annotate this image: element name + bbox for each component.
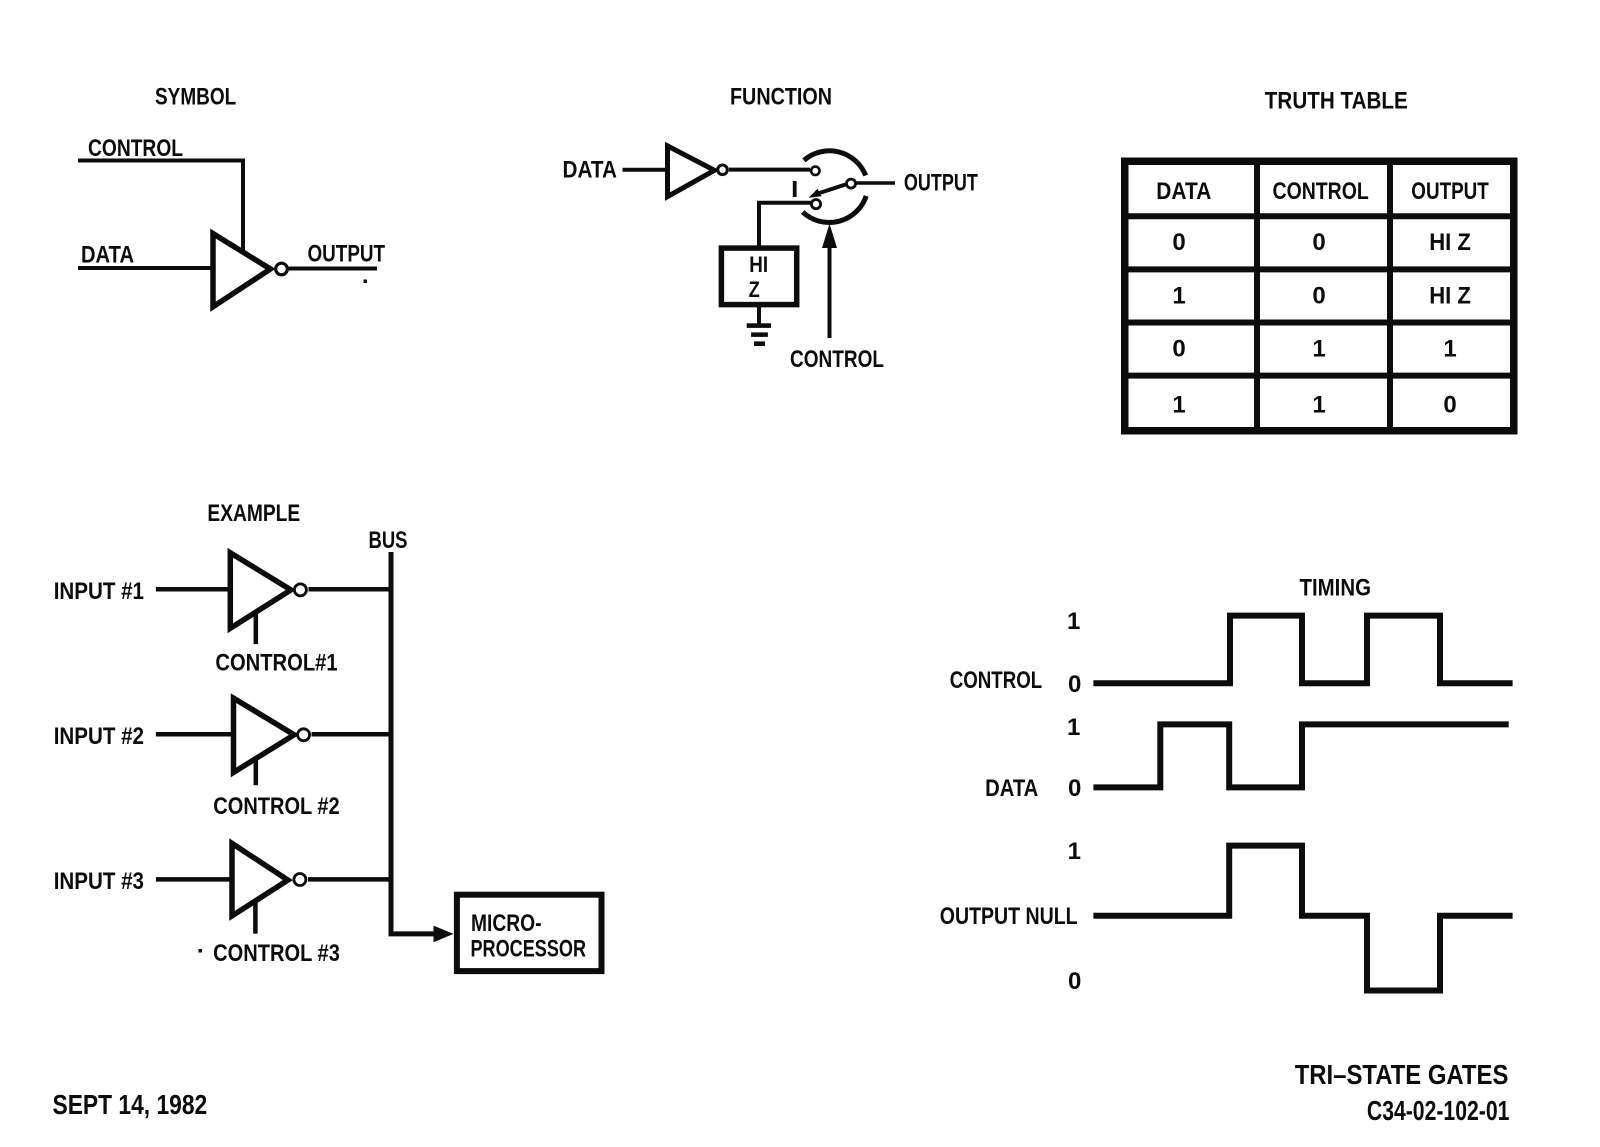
node INPUT #3 label — [54, 868, 144, 895]
switch S1 body arc top — [804, 151, 866, 176]
svg-text:1: 1 — [1172, 392, 1185, 419]
truth table header DATA — [1156, 178, 1211, 205]
svg-text:0: 0 — [1443, 392, 1456, 419]
footer date SEPT 14, 1982 — [53, 1089, 208, 1120]
DATA timing level 0 label — [1068, 775, 1081, 802]
OUTPUT NULL waveform — [1093, 846, 1512, 991]
truth table header CONTROL — [1273, 178, 1369, 205]
svg-text:SYMBOL: SYMBOL — [155, 84, 236, 111]
svg-text:CONTROL#1: CONTROL#1 — [215, 650, 337, 677]
node CONTROL #3 label — [213, 940, 340, 967]
wire buffer U5 to bus — [308, 877, 391, 882]
node OUTPUT label (function) — [904, 170, 978, 197]
CONTROL timing level 1 label — [1067, 608, 1080, 635]
svg-text:1: 1 — [1068, 838, 1081, 865]
wire HI Z box to ground — [757, 305, 761, 324]
svg-text:1: 1 — [1312, 392, 1325, 419]
svg-text:BUS: BUS — [369, 527, 408, 554]
svg-text:TIMING: TIMING — [1300, 575, 1372, 602]
buffer U5 inversion bubble — [294, 874, 306, 886]
node DATA label — [81, 242, 134, 269]
wire INPUT #2 — [156, 732, 235, 737]
svg-text:HI Z: HI Z — [1429, 229, 1471, 256]
node CONTROL#1 label — [215, 650, 337, 677]
wire buffer to switch contact — [729, 168, 810, 172]
svg-text:DATA: DATA — [81, 242, 134, 269]
title FUNCTION — [730, 84, 832, 111]
wire INPUT #1 — [156, 587, 232, 592]
wire DATA input — [78, 266, 215, 270]
truth table row 2 values — [1172, 283, 1471, 310]
wire INPUT #3 — [156, 877, 234, 882]
svg-text:CONTROL: CONTROL — [950, 667, 1042, 694]
node CONTROL label — [88, 135, 183, 162]
node BUS label — [369, 527, 408, 554]
svg-text:OUTPUT: OUTPUT — [904, 170, 978, 197]
buffer U3 inversion bubble — [294, 584, 306, 596]
svg-text:1: 1 — [1067, 608, 1080, 635]
switch S1 pivot contact — [847, 179, 856, 188]
node DATA label (function) — [563, 157, 617, 184]
truth table header OUTPUT — [1411, 178, 1489, 205]
title TIMING — [1300, 575, 1372, 602]
truth table row separator 2 — [1121, 320, 1518, 326]
svg-text:1: 1 — [1172, 283, 1185, 310]
svg-text:SEPT 14, 1982: SEPT 14, 1982 — [53, 1089, 208, 1120]
switch S1 lower contact — [811, 200, 820, 209]
wire CONTROL #3 stub — [253, 900, 258, 934]
CONTROL arrow into switch — [822, 224, 837, 339]
truth table row separator 3 — [1121, 373, 1518, 379]
wire lower contact to HI Z box — [759, 203, 811, 250]
switch S1 upper contact — [811, 167, 819, 175]
title SYMBOL — [155, 84, 236, 111]
truth table row 1 values — [1172, 229, 1471, 256]
block MICRO-PROCESSOR — [457, 895, 602, 971]
truth table row 3 values — [1172, 336, 1456, 363]
stray dot — [364, 280, 368, 284]
svg-text:OUTPUT: OUTPUT — [308, 241, 386, 268]
svg-text:OUTPUT NULL: OUTPUT NULL — [940, 903, 1078, 930]
CONTROL timing level 0 label — [1068, 671, 1081, 698]
svg-text:CONTROL: CONTROL — [88, 135, 183, 162]
node CONTROL #2 label — [213, 793, 339, 820]
svg-text:0: 0 — [1172, 336, 1185, 363]
svg-text:FUNCTION: FUNCTION — [730, 84, 832, 111]
truth table row separator 1 — [1121, 266, 1518, 272]
switch S1 body arc bottom — [803, 196, 867, 223]
svg-text:HI Z: HI Z — [1429, 283, 1471, 310]
buffer U2 inversion bubble — [718, 165, 728, 175]
svg-text:DATA: DATA — [1156, 178, 1211, 205]
svg-text:TRI–STATE GATES: TRI–STATE GATES — [1295, 1059, 1509, 1090]
svg-text:EXAMPLE: EXAMPLE — [207, 500, 300, 527]
footer doc number C34-02-102-01 — [1367, 1095, 1510, 1126]
node DATA label (timing) — [985, 775, 1038, 802]
svg-text:CONTROL: CONTROL — [1273, 178, 1369, 205]
wire CONTROL#1 stub — [254, 611, 259, 644]
svg-text:0: 0 — [1068, 968, 1081, 995]
svg-text:0: 0 — [1068, 671, 1081, 698]
buffer U1 inversion bubble — [276, 263, 288, 275]
wire BUS — [389, 552, 394, 931]
svg-text:0: 0 — [1312, 283, 1325, 310]
svg-text:CONTROL: CONTROL — [790, 346, 884, 373]
switch S1 lever with arrowhead — [809, 185, 846, 198]
buffer U3 triangle — [230, 553, 291, 628]
wire buffer U4 to bus — [312, 732, 392, 737]
wire bus elbow to microprocessor — [391, 926, 454, 943]
svg-text:INPUT #3: INPUT #3 — [54, 868, 144, 895]
svg-text:1: 1 — [1443, 336, 1456, 363]
svg-text:CONTROL #2: CONTROL #2 — [213, 793, 339, 820]
wire DATA to buffer — [623, 168, 670, 172]
truth table column divider 1 — [1254, 158, 1260, 435]
truth table column divider 2 — [1387, 158, 1393, 435]
svg-text:CONTROL #3: CONTROL #3 — [213, 940, 340, 967]
svg-text:INPUT #1: INPUT #1 — [54, 578, 144, 605]
DATA waveform — [1093, 724, 1508, 787]
buffer U4 inversion bubble — [298, 729, 310, 741]
node CONTROL label (function) — [790, 346, 884, 373]
block HI Z — [721, 248, 796, 305]
node OUTPUT label — [308, 241, 386, 268]
ground — [747, 323, 771, 346]
stray dot 2 — [199, 949, 203, 953]
title TRUTH TABLE — [1265, 88, 1408, 115]
title EXAMPLE — [207, 500, 300, 527]
pin 1 tick mark — [793, 181, 797, 197]
buffer U4 triangle — [234, 698, 295, 772]
DATA timing level 1 label — [1067, 714, 1080, 741]
svg-text:MICRO-: MICRO- — [471, 910, 542, 937]
buffer U2 triangle — [668, 146, 715, 197]
CONTROL waveform — [1093, 616, 1512, 684]
svg-text:INPUT #2: INPUT #2 — [54, 723, 144, 750]
svg-text:C34-02-102-01: C34-02-102-01 — [1367, 1095, 1510, 1126]
svg-text:1: 1 — [1312, 336, 1325, 363]
svg-text:0: 0 — [1068, 775, 1081, 802]
svg-text:HI: HI — [749, 252, 768, 277]
node INPUT #2 label — [54, 723, 144, 750]
wire OUTPUT (function) — [857, 181, 896, 185]
node OUTPUT NULL label — [940, 903, 1078, 930]
svg-text:0: 0 — [1312, 229, 1325, 256]
OUTPUT timing level 1 label — [1068, 838, 1081, 865]
buffer U5 triangle — [232, 843, 288, 916]
svg-text:0: 0 — [1172, 229, 1185, 256]
truth table row 4 values — [1172, 392, 1456, 419]
buffer U1 triangle — [213, 234, 270, 307]
wire OUTPUT — [288, 267, 377, 271]
wire CONTROL #2 stub — [254, 758, 259, 786]
node CONTROL label (timing) — [950, 667, 1042, 694]
truth table header separator — [1121, 213, 1518, 219]
truth table frame — [1125, 161, 1514, 431]
svg-text:TRUTH TABLE: TRUTH TABLE — [1265, 88, 1408, 115]
svg-text:PROCESSOR: PROCESSOR — [471, 936, 587, 963]
svg-text:DATA: DATA — [985, 775, 1038, 802]
wire buffer U3 to bus — [309, 587, 392, 592]
svg-text:DATA: DATA — [563, 157, 617, 184]
footer title TRI-STATE GATES — [1295, 1059, 1509, 1090]
wire CONTROL to buffer top — [78, 161, 243, 253]
OUTPUT timing level 0 label — [1068, 968, 1081, 995]
svg-text:1: 1 — [1067, 714, 1080, 741]
svg-text:OUTPUT: OUTPUT — [1411, 178, 1489, 205]
node INPUT #1 label — [54, 578, 144, 605]
svg-text:Z: Z — [749, 277, 760, 302]
